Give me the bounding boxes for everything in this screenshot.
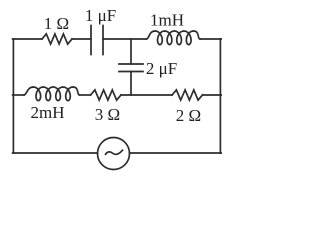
wire between R1 and C1 bbox=[72, 38, 91, 40]
svg-text:2 μF: 2 μF bbox=[146, 59, 177, 78]
resistor R 2 ohm bbox=[172, 90, 203, 100]
AC source sine symbol bbox=[106, 150, 123, 154]
wire top-left segment bbox=[13, 38, 42, 40]
wire middle-left segment bbox=[13, 94, 24, 96]
wire 2mH to R 3ohm bbox=[80, 94, 91, 96]
inductor L 1mH bbox=[147, 31, 201, 45]
svg-text:3 Ω: 3 Ω bbox=[95, 105, 120, 124]
svg-text:2 Ω: 2 Ω bbox=[176, 106, 201, 125]
wire C1 to node A bbox=[103, 38, 147, 40]
wire right vertical bbox=[219, 39, 221, 153]
wire R3 to node B to R2 bbox=[121, 94, 172, 96]
capacitor C 2uF plates bbox=[119, 63, 143, 65]
resistor R 1 ohm bbox=[42, 34, 72, 44]
svg-text:1 Ω: 1 Ω bbox=[44, 14, 69, 33]
svg-text:2mH: 2mH bbox=[31, 103, 65, 122]
inductor L 2mH bbox=[24, 87, 80, 101]
capacitor C 1uF plates bbox=[90, 26, 92, 55]
node A branch: wire down to C2 bbox=[130, 39, 132, 64]
wire left vertical bbox=[12, 39, 14, 153]
wire bottom-right segment bbox=[130, 152, 222, 154]
resistor R 3 ohm bbox=[91, 90, 122, 100]
wire bottom-left segment bbox=[13, 152, 98, 154]
wire 1mH to top-right corner bbox=[200, 38, 221, 40]
svg-text:1 μF: 1 μF bbox=[85, 6, 116, 25]
wire C2 to middle row node B bbox=[130, 72, 132, 96]
AC source V1 circle bbox=[98, 138, 130, 170]
svg-text:1mH: 1mH bbox=[150, 11, 184, 30]
wire R2 to right vertical bbox=[203, 94, 222, 96]
